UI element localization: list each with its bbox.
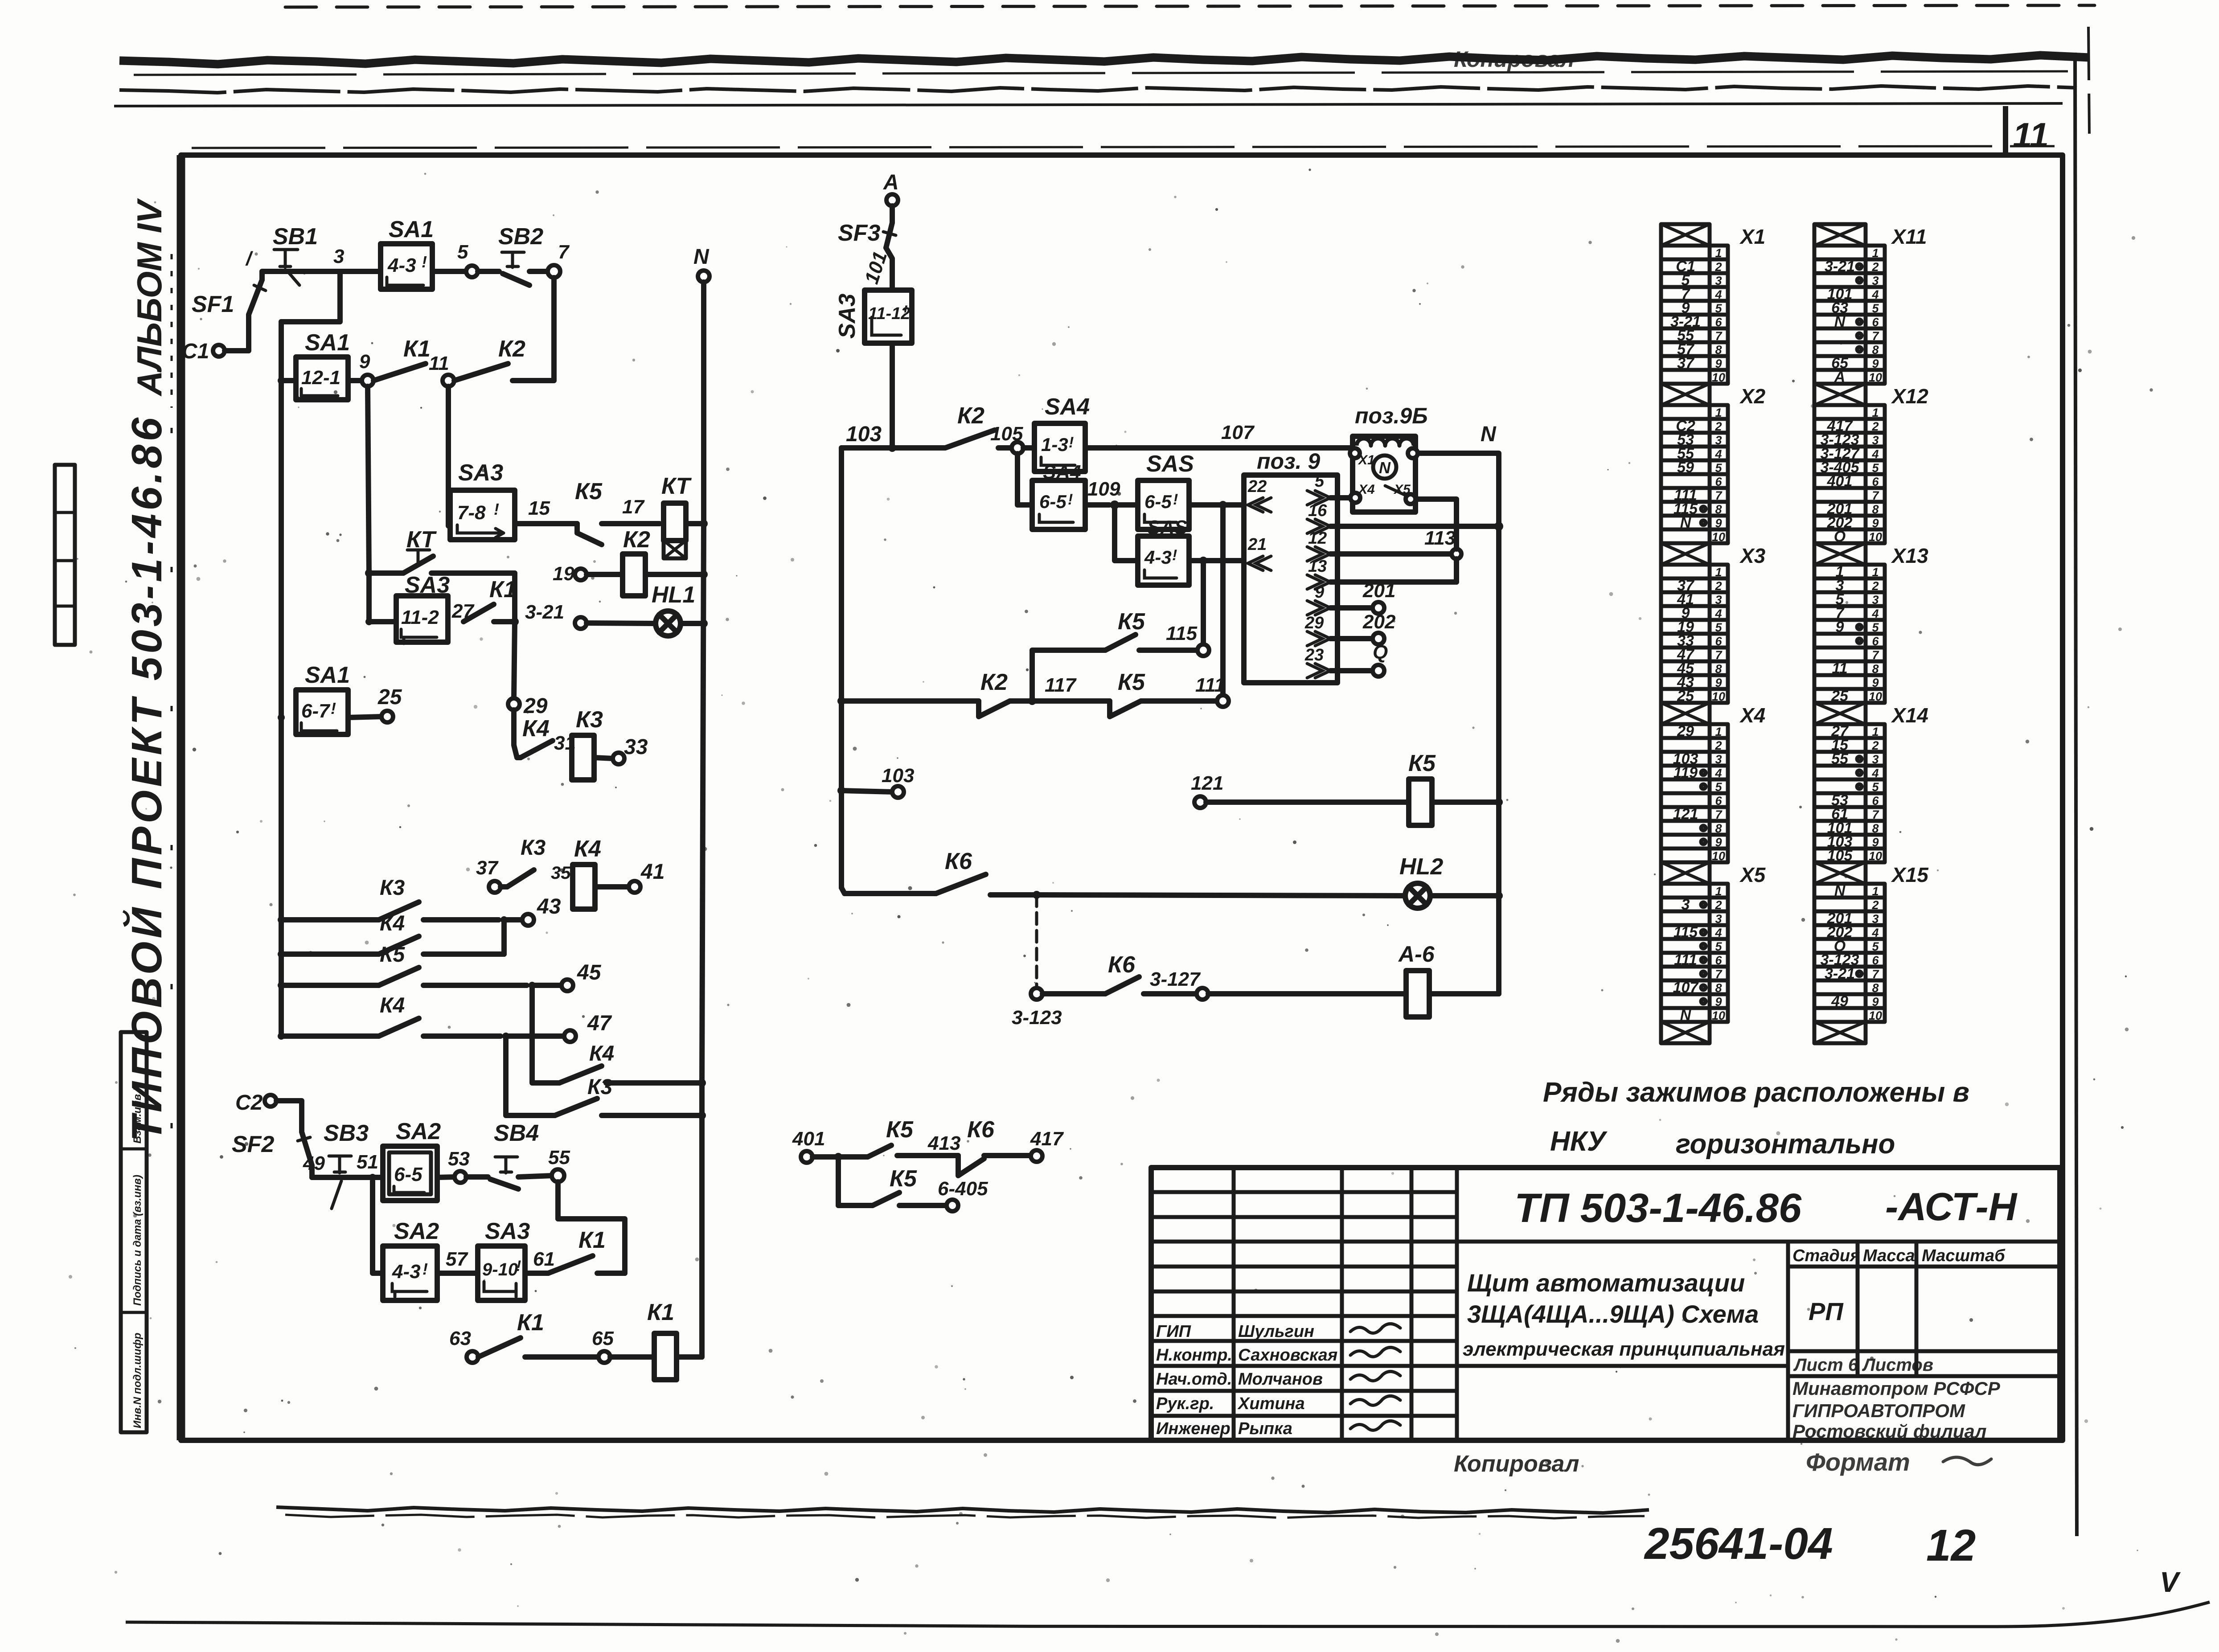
svg-text:16: 16 xyxy=(1308,501,1327,520)
svg-text:HL1: HL1 xyxy=(652,582,695,608)
svg-text:Ряды зажимов расположены в: Ряды зажимов расположены в xyxy=(1543,1077,1969,1108)
junction to 3-123 branch xyxy=(1033,891,1405,899)
svg-text:РП: РП xyxy=(1809,1297,1844,1325)
switch-unit SA5 contacts 4-3 xyxy=(1138,517,1189,585)
svg-text:9: 9 xyxy=(1315,583,1324,602)
svg-text:107: 107 xyxy=(1221,422,1255,443)
svg-text:ТП 503-1-46.86: ТП 503-1-46.86 xyxy=(1514,1185,1802,1231)
svg-text:Подпись и дата (вз.инв): Подпись и дата (вз.инв) xyxy=(131,1175,144,1306)
node 3-127 xyxy=(1150,968,1208,1000)
wire 27-row down to node 29 xyxy=(514,622,515,699)
node 55 xyxy=(548,1147,570,1182)
node 3-123 xyxy=(1012,988,1062,1029)
node 61 / contact K1 xyxy=(525,1227,625,1273)
svg-text:SA2: SA2 xyxy=(396,1119,441,1144)
svg-text:10: 10 xyxy=(1869,849,1882,863)
svg-text:7-8: 7-8 xyxy=(457,502,486,524)
svg-text:SA2: SA2 xyxy=(394,1218,439,1244)
svg-text:К5: К5 xyxy=(575,479,603,504)
svg-text:9: 9 xyxy=(359,351,370,373)
svg-text:37: 37 xyxy=(476,857,499,879)
terminal block Х4 xyxy=(1661,703,1765,863)
contact K2 (row 117) xyxy=(837,669,1036,717)
terminal block Х5 xyxy=(1661,862,1766,1024)
svg-text:Х5: Х5 xyxy=(1739,863,1766,886)
svg-text:Щит автоматизации: Щит автоматизации xyxy=(1467,1269,1745,1297)
svg-text:29: 29 xyxy=(1304,614,1324,632)
terminal block Х3 xyxy=(1661,543,1766,705)
svg-text:С2: С2 xyxy=(235,1091,263,1115)
svg-text:К5: К5 xyxy=(1118,609,1145,635)
svg-text:К2: К2 xyxy=(623,527,650,553)
node 11 xyxy=(429,353,454,386)
title block signatures column xyxy=(1156,1322,1400,1438)
svg-text:К4: К4 xyxy=(522,716,550,742)
switch-unit SA3 contacts 11-2 xyxy=(365,572,450,644)
svg-text:Х14: Х14 xyxy=(1891,704,1928,727)
contact K2 (row 11-7) xyxy=(454,336,547,381)
pin 22 xyxy=(1247,477,1271,512)
lamp HL1 xyxy=(587,582,708,636)
node 401 xyxy=(792,1128,825,1163)
svg-text:Х4: Х4 xyxy=(1358,482,1375,497)
node 111 xyxy=(1195,674,1229,707)
terminal block Х13 xyxy=(1814,543,1928,705)
terminal C1 xyxy=(182,340,225,363)
pin 16 xyxy=(1307,501,1503,533)
svg-text:К1: К1 xyxy=(517,1310,544,1336)
pin 9 / terminal 201 xyxy=(1307,580,1395,615)
svg-text:11: 11 xyxy=(429,353,449,374)
svg-text:А: А xyxy=(883,171,899,194)
svg-text:С1: С1 xyxy=(182,340,209,363)
svg-text:SA3: SA3 xyxy=(405,572,450,598)
node 53 xyxy=(437,1148,470,1183)
svg-text:417: 417 xyxy=(1030,1128,1064,1150)
svg-text:61: 61 xyxy=(533,1248,555,1270)
svg-text:Масса: Масса xyxy=(1863,1246,1915,1265)
node 7 xyxy=(548,241,570,278)
wire X5 to pin13 vertical xyxy=(1411,499,1456,582)
svg-text:57: 57 xyxy=(446,1248,468,1270)
wire 109 down xyxy=(1115,509,1138,561)
pin 23 / terminal Q xyxy=(1304,641,1388,678)
contact K6 (HL2 row) xyxy=(841,849,1037,895)
contact K5 (branch to 115) xyxy=(1032,609,1198,701)
svg-text:10: 10 xyxy=(1869,371,1882,384)
sheet number box "11" xyxy=(2006,106,2049,155)
wire row1 to bus corner xyxy=(281,271,340,322)
switch-unit SA3 contacts 9-10 xyxy=(478,1218,530,1300)
svg-text:SF3: SF3 xyxy=(838,220,880,246)
svg-text:23: 23 xyxy=(1304,646,1324,664)
svg-text:17: 17 xyxy=(622,496,645,518)
switch-unit SA4 contacts 6-5 xyxy=(1032,461,1085,529)
svg-text:SAS: SAS xyxy=(1146,451,1194,477)
svg-text:25: 25 xyxy=(377,685,402,709)
svg-text:109: 109 xyxy=(1087,478,1120,500)
contact K5 (row 45) xyxy=(278,943,527,989)
contact K2 (row 103-105) xyxy=(931,403,1012,448)
contact K6 (row 3-127) xyxy=(1042,952,1197,994)
svg-text:Нач.отд.: Нач.отд. xyxy=(1156,1370,1232,1389)
title block organization xyxy=(1792,1378,2001,1442)
node 37 xyxy=(476,857,500,893)
switch-unit SA1 contacts 6-7 xyxy=(278,662,350,734)
net N (middle) vertical xyxy=(1415,422,1499,994)
svg-text:4-3: 4-3 xyxy=(1144,547,1172,568)
svg-text:55: 55 xyxy=(548,1147,570,1168)
handwritten note "Формат" xyxy=(1806,1448,1991,1476)
svg-text:Q: Q xyxy=(1373,641,1388,663)
wire 9 down xyxy=(368,386,369,573)
svg-text:К5: К5 xyxy=(380,943,406,967)
lamp HL2 xyxy=(1399,854,1503,908)
relay coil K5 xyxy=(1206,750,1503,825)
net N top node xyxy=(693,245,710,282)
svg-text:10: 10 xyxy=(1712,690,1725,703)
terminal C2 xyxy=(235,1091,276,1115)
pin 13 xyxy=(1307,557,1456,589)
svg-text:Рук.гр.: Рук.гр. xyxy=(1156,1394,1214,1413)
svg-text:Копировал: Копировал xyxy=(1454,47,1575,72)
wire C1 to SF1 xyxy=(225,315,249,351)
svg-text:ТИПОВОЙ ПРОЕКТ 503-1-46.86: ТИПОВОЙ ПРОЕКТ 503-1-46.86 xyxy=(122,417,171,1142)
svg-text:!: ! xyxy=(331,699,336,717)
svg-text:29: 29 xyxy=(523,694,548,718)
svg-text:ГИПРОАВТОПРОМ: ГИПРОАВТОПРОМ xyxy=(1792,1400,1965,1421)
svg-text:К6: К6 xyxy=(1108,952,1136,978)
node A (phase) xyxy=(883,171,899,206)
wire 55 down to K1 row xyxy=(558,1182,625,1273)
svg-text:SA3: SA3 xyxy=(458,460,503,486)
svg-text:5: 5 xyxy=(457,241,468,263)
svg-text:Копировал: Копировал xyxy=(1454,1451,1579,1477)
breaker SF3 xyxy=(838,206,896,248)
svg-text:К4: К4 xyxy=(589,1042,614,1066)
svg-text:6-405: 6-405 xyxy=(938,1178,988,1200)
relay coil A-6 xyxy=(1208,942,1499,1017)
svg-text:105: 105 xyxy=(990,423,1023,445)
svg-text:К2: К2 xyxy=(980,669,1008,695)
switch-unit SA1 contacts 4-3 xyxy=(381,217,434,289)
svg-text:41: 41 xyxy=(640,860,664,884)
svg-text:35: 35 xyxy=(551,863,571,883)
svg-text:К3: К3 xyxy=(587,1075,613,1099)
svg-text:10: 10 xyxy=(1712,849,1725,863)
wire C2 to SF2 xyxy=(276,1101,302,1132)
wire pin22-row down to node 111 xyxy=(1220,505,1226,695)
node 47 xyxy=(502,1012,612,1042)
svg-text:3: 3 xyxy=(333,246,344,267)
wire 105 down xyxy=(1017,454,1032,505)
pushbutton SB4 xyxy=(466,1120,553,1189)
contact K3 (to N bus) xyxy=(506,1036,706,1119)
svg-text:10: 10 xyxy=(1869,530,1882,544)
svg-text:Х2: Х2 xyxy=(1739,385,1766,408)
wire down to node 115 xyxy=(1201,561,1206,645)
svg-text:!: ! xyxy=(1173,491,1178,508)
node 19 xyxy=(553,563,587,585)
node 9 xyxy=(348,351,373,386)
svg-text:НКУ: НКУ xyxy=(1550,1126,1608,1157)
svg-text:19: 19 xyxy=(553,563,574,585)
terminal block Х1 xyxy=(1661,224,1765,384)
contact K6 (row 413-417) xyxy=(958,1117,1030,1176)
svg-text:-АСТ-Н: -АСТ-Н xyxy=(1885,1185,2018,1229)
svg-text:SF2: SF2 xyxy=(232,1131,274,1157)
contact K4 (row below 43) xyxy=(278,912,504,958)
svg-text:SA1: SA1 xyxy=(305,662,350,688)
svg-text:К6: К6 xyxy=(945,849,972,874)
svg-text:К3: К3 xyxy=(380,876,405,900)
svg-text:электрическая принципиальная: электрическая принципиальная xyxy=(1463,1338,1785,1360)
svg-text:6-5: 6-5 xyxy=(1144,491,1172,512)
svg-text:Инженер: Инженер xyxy=(1156,1419,1230,1438)
svg-text:!: ! xyxy=(1068,491,1073,508)
terminal block end cap (Х5) xyxy=(1661,1022,1710,1043)
terminal block Х11 xyxy=(1814,224,1927,385)
svg-text:Х1: Х1 xyxy=(1358,453,1375,467)
svg-text:Х11: Х11 xyxy=(1891,225,1927,248)
contact K5 (row 6-405) xyxy=(838,1160,988,1211)
svg-text:15: 15 xyxy=(528,497,550,519)
svg-text:13: 13 xyxy=(1308,557,1327,576)
pin 21 xyxy=(1247,535,1271,570)
svg-text:Ростовский филиал: Ростовский филиал xyxy=(1792,1421,1986,1442)
svg-text:HL2: HL2 xyxy=(1399,854,1443,880)
svg-text:33: 33 xyxy=(624,735,648,759)
node 109 xyxy=(1085,478,1120,509)
svg-text:12-1: 12-1 xyxy=(301,367,340,389)
contact K4 (to N bus) xyxy=(532,985,706,1087)
svg-text:SA3: SA3 xyxy=(485,1218,530,1244)
title block (stamp) xyxy=(1151,1168,2060,1440)
svg-text:51: 51 xyxy=(357,1151,378,1173)
node 45 xyxy=(529,961,602,991)
node 417 xyxy=(1030,1128,1064,1162)
svg-text:К3: К3 xyxy=(576,707,603,733)
svg-text:3ЩА(4ЩА...9ЩА) Схема: 3ЩА(4ЩА...9ЩА) Схема xyxy=(1467,1300,1759,1328)
switch-unit SA2 contacts 6-5 xyxy=(373,1119,441,1201)
wire 57 xyxy=(437,1248,478,1273)
svg-text:К6: К6 xyxy=(967,1117,995,1143)
left bus vertical xyxy=(279,322,284,1036)
svg-text:22: 22 xyxy=(1247,477,1267,496)
node 29 xyxy=(508,694,548,718)
svg-text:N: N xyxy=(693,245,710,269)
switch-unit SA3 contacts 11-12 xyxy=(834,290,912,343)
svg-text:113: 113 xyxy=(1424,527,1456,549)
contact K5 (row 401-413) xyxy=(812,1117,960,1161)
svg-text:К1: К1 xyxy=(578,1227,606,1253)
svg-text:10: 10 xyxy=(1712,530,1725,544)
net N vertical bus (left section) xyxy=(702,282,704,1357)
wire 101 xyxy=(861,248,892,290)
breaker SF1 xyxy=(192,280,266,317)
left-mid bus down xyxy=(839,448,844,888)
pin 5 xyxy=(1307,472,1353,505)
svg-text:!: ! xyxy=(1069,434,1074,451)
svg-text:Х15: Х15 xyxy=(1891,863,1929,886)
contact K4 (row 31) xyxy=(521,716,576,758)
svg-text:SA4: SA4 xyxy=(1045,394,1090,420)
switch-unit SA5 contacts 6-5 xyxy=(1119,451,1194,529)
node 3-21 xyxy=(525,601,587,629)
svg-text:!: ! xyxy=(903,303,908,319)
svg-text:12: 12 xyxy=(1926,1521,1976,1570)
svg-text:Масштаб: Масштаб xyxy=(1922,1246,2006,1265)
svg-text:9-10: 9-10 xyxy=(482,1260,518,1279)
svg-text:47: 47 xyxy=(587,1012,612,1035)
node 49 / pushbutton SB3 xyxy=(303,1120,373,1209)
svg-text:КТ: КТ xyxy=(406,527,437,553)
svg-text:!: ! xyxy=(516,1258,521,1275)
svg-text:10: 10 xyxy=(1869,690,1882,703)
svg-text:!: ! xyxy=(422,1260,428,1278)
node 5 xyxy=(432,241,478,277)
svg-text:4-3: 4-3 xyxy=(392,1261,421,1283)
svg-text:Формат: Формат xyxy=(1806,1448,1910,1476)
svg-text:103: 103 xyxy=(882,765,914,787)
pin 12 / node 113 xyxy=(1307,527,1461,561)
svg-text:45: 45 xyxy=(577,961,602,984)
svg-text:АЛЬБОМ IV: АЛЬБОМ IV xyxy=(130,198,169,397)
node 115 xyxy=(1166,623,1209,656)
terminal block Х14 xyxy=(1814,703,1928,864)
svg-text:N: N xyxy=(1481,422,1497,446)
node 3 / wire to SA1 xyxy=(312,246,381,271)
svg-text:Лист 6 Листов: Лист 6 Листов xyxy=(1793,1355,1933,1375)
svg-text:117: 117 xyxy=(1045,674,1077,696)
svg-text:Х12: Х12 xyxy=(1891,385,1928,408)
svg-text:Рыпка: Рыпка xyxy=(1238,1419,1292,1438)
relay coil K3 (row 33) xyxy=(572,707,648,780)
switch-unit SA3 contacts 7-8 xyxy=(450,460,515,540)
contact K1 (row 9-11) xyxy=(373,336,431,381)
svg-text:111: 111 xyxy=(1195,674,1225,696)
svg-text:SB1: SB1 xyxy=(273,224,318,250)
wire to pin 22 xyxy=(1189,501,1244,509)
svg-text:11: 11 xyxy=(2013,115,2049,155)
contact K3 (row 35) xyxy=(500,836,571,887)
node 105 xyxy=(990,423,1023,454)
wire down to 3-123 xyxy=(1035,895,1038,988)
wire KT coil to N xyxy=(686,520,708,528)
wire 7 down to K2 row xyxy=(547,278,554,381)
terminal block end cap (Х15) xyxy=(1814,1022,1866,1043)
svg-text:10: 10 xyxy=(1712,371,1725,384)
wire KT-contact down to row 27 xyxy=(512,573,517,622)
svg-text:!: ! xyxy=(1172,547,1177,564)
svg-text:Шульгин: Шульгин xyxy=(1238,1322,1314,1341)
svg-text:201: 201 xyxy=(1362,580,1395,602)
relay coil K2 xyxy=(587,527,708,596)
svg-text:К5: К5 xyxy=(1118,669,1145,695)
svg-text:3-127: 3-127 xyxy=(1150,968,1201,990)
svg-text:К5: К5 xyxy=(890,1166,917,1192)
terminal block Х2 xyxy=(1661,384,1766,544)
contact K5 (NC, row 15-17) xyxy=(575,479,660,545)
svg-text:1-3: 1-3 xyxy=(1041,434,1068,455)
switch-unit SA1 contacts 12-1 xyxy=(278,330,350,400)
svg-text:!: ! xyxy=(494,500,499,518)
svg-text:SA1: SA1 xyxy=(305,330,350,356)
svg-text:49: 49 xyxy=(303,1152,325,1174)
svg-text:Н.контр.: Н.контр. xyxy=(1156,1346,1232,1365)
svg-text:10: 10 xyxy=(1869,1009,1882,1022)
svg-text:6-7: 6-7 xyxy=(301,700,331,722)
svg-text:Хитина: Хитина xyxy=(1237,1394,1305,1413)
svg-text:413: 413 xyxy=(927,1132,960,1154)
svg-text:SA3: SA3 xyxy=(834,294,860,339)
svg-text:53: 53 xyxy=(448,1148,470,1170)
node 103 junction xyxy=(841,422,931,452)
breaker SF2 xyxy=(232,1131,312,1177)
node 63 xyxy=(449,1328,478,1363)
svg-text:65: 65 xyxy=(592,1328,614,1349)
svg-text:К4: К4 xyxy=(380,994,405,1017)
node 51 xyxy=(357,1151,378,1181)
svg-text:Х3: Х3 xyxy=(1739,544,1766,567)
svg-text:21: 21 xyxy=(1247,535,1267,554)
svg-text:Инв.N подл.шифр: Инв.N подл.шифр xyxy=(131,1332,144,1428)
wire to pin 21 xyxy=(1189,557,1244,565)
svg-text:К4: К4 xyxy=(574,836,601,862)
svg-text:V: V xyxy=(2160,1566,2181,1598)
wire SA3 down to node 103 xyxy=(890,343,895,448)
wire 11 down to SA3 xyxy=(448,386,450,526)
svg-text:поз. 9: поз. 9 xyxy=(1257,449,1320,474)
switch-unit SA4 contacts 1-3 xyxy=(1023,394,1090,471)
switch-unit SA2 contacts 4-3 xyxy=(383,1218,439,1300)
svg-text:202: 202 xyxy=(1362,611,1396,633)
svg-text:3-21: 3-21 xyxy=(525,601,564,623)
wire 117 / contact K5 (row 111) xyxy=(1032,669,1217,717)
node 1 xyxy=(245,248,275,280)
svg-text:401: 401 xyxy=(792,1128,825,1150)
svg-text:Молчанов: Молчанов xyxy=(1238,1370,1323,1389)
node 103 stub terminal xyxy=(837,765,914,798)
connector box поз.9 xyxy=(1244,449,1337,683)
terminal block Х12 xyxy=(1814,384,1928,545)
svg-text:7: 7 xyxy=(558,241,570,263)
svg-text:115: 115 xyxy=(1166,623,1198,644)
pushbutton SB1 xyxy=(273,224,318,285)
pin 29 / terminal 202 xyxy=(1304,611,1396,646)
svg-text:12: 12 xyxy=(1308,529,1327,548)
title block subject text xyxy=(1463,1269,1785,1360)
svg-text:!: ! xyxy=(422,253,427,271)
svg-text:Х4: Х4 xyxy=(1739,704,1765,727)
svg-text:5: 5 xyxy=(1315,472,1325,491)
svg-text:ГИП: ГИП xyxy=(1156,1322,1191,1341)
wire 29 down to K4 contact xyxy=(514,710,521,758)
svg-text:К5: К5 xyxy=(1408,750,1436,776)
svg-text:10: 10 xyxy=(1712,1009,1725,1022)
svg-text:Х5: Х5 xyxy=(1393,482,1411,497)
svg-text:Х13: Х13 xyxy=(1891,544,1928,567)
svg-text:К1: К1 xyxy=(489,577,517,603)
svg-text:11-2: 11-2 xyxy=(401,607,439,628)
svg-text:SB4: SB4 xyxy=(494,1120,539,1146)
indicator unit поз.9Б xyxy=(1350,403,1428,512)
svg-text:К1: К1 xyxy=(403,336,431,362)
svg-text:6-5: 6-5 xyxy=(1039,491,1066,512)
wire 15 xyxy=(515,497,577,524)
node 27 / contact K1 xyxy=(451,577,519,626)
svg-text:SA4: SA4 xyxy=(1043,461,1081,483)
